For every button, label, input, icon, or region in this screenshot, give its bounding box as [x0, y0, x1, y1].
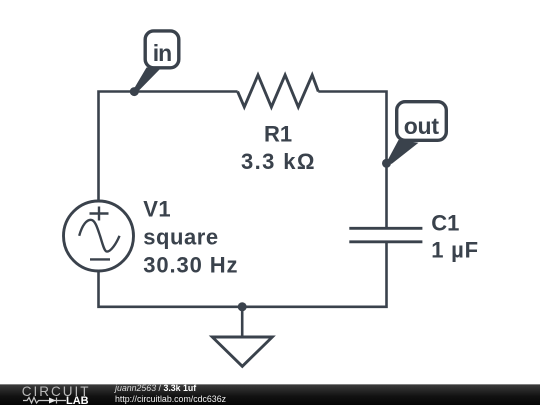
svg-text:C1: C1 — [431, 211, 459, 236]
svg-text:V1: V1 — [143, 197, 171, 222]
svg-text:square: square — [143, 225, 218, 250]
svg-text:30.30 Hz: 30.30 Hz — [143, 253, 238, 278]
svg-text:out: out — [404, 113, 440, 139]
svg-text:in: in — [153, 40, 171, 66]
svg-text:LAB: LAB — [66, 395, 89, 405]
svg-text:R1: R1 — [264, 121, 292, 146]
svg-text:1 µF: 1 µF — [431, 238, 479, 263]
svg-text:3.3 kΩ: 3.3 kΩ — [241, 149, 316, 174]
